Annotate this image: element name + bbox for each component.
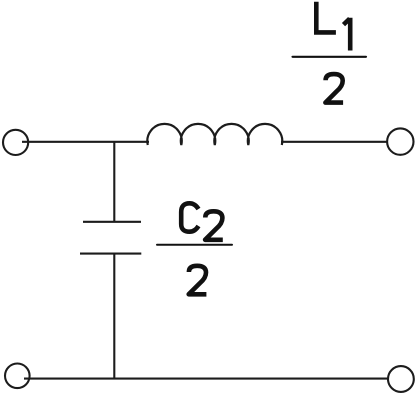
terminal bottom-left [5,364,30,389]
fraction bar of C2/2 [157,244,232,246]
label denominator 2 of L1/2 [325,74,343,103]
label denominator 2 of C2/2 [189,266,207,295]
capacitor C2 bottom plate [80,253,141,255]
terminal top-left [3,130,28,155]
wire top-right segment [281,141,388,143]
label L of L1 [316,2,336,33]
wire from capacitor down to bottom rail [113,254,115,380]
wire from node down to capacitor [113,141,115,222]
wire bottom rail [24,378,388,380]
inductor L1 [147,124,282,145]
terminal bottom-right [388,366,414,392]
wire top-left segment [22,141,149,143]
label subscript 2 of C2 [205,211,223,240]
terminal top-right [387,128,413,154]
label subscript 1 of L1 [344,18,351,51]
capacitor C2 top plate [83,221,141,223]
fraction bar of L1/2 [293,56,367,58]
label C of C2 [181,203,198,231]
